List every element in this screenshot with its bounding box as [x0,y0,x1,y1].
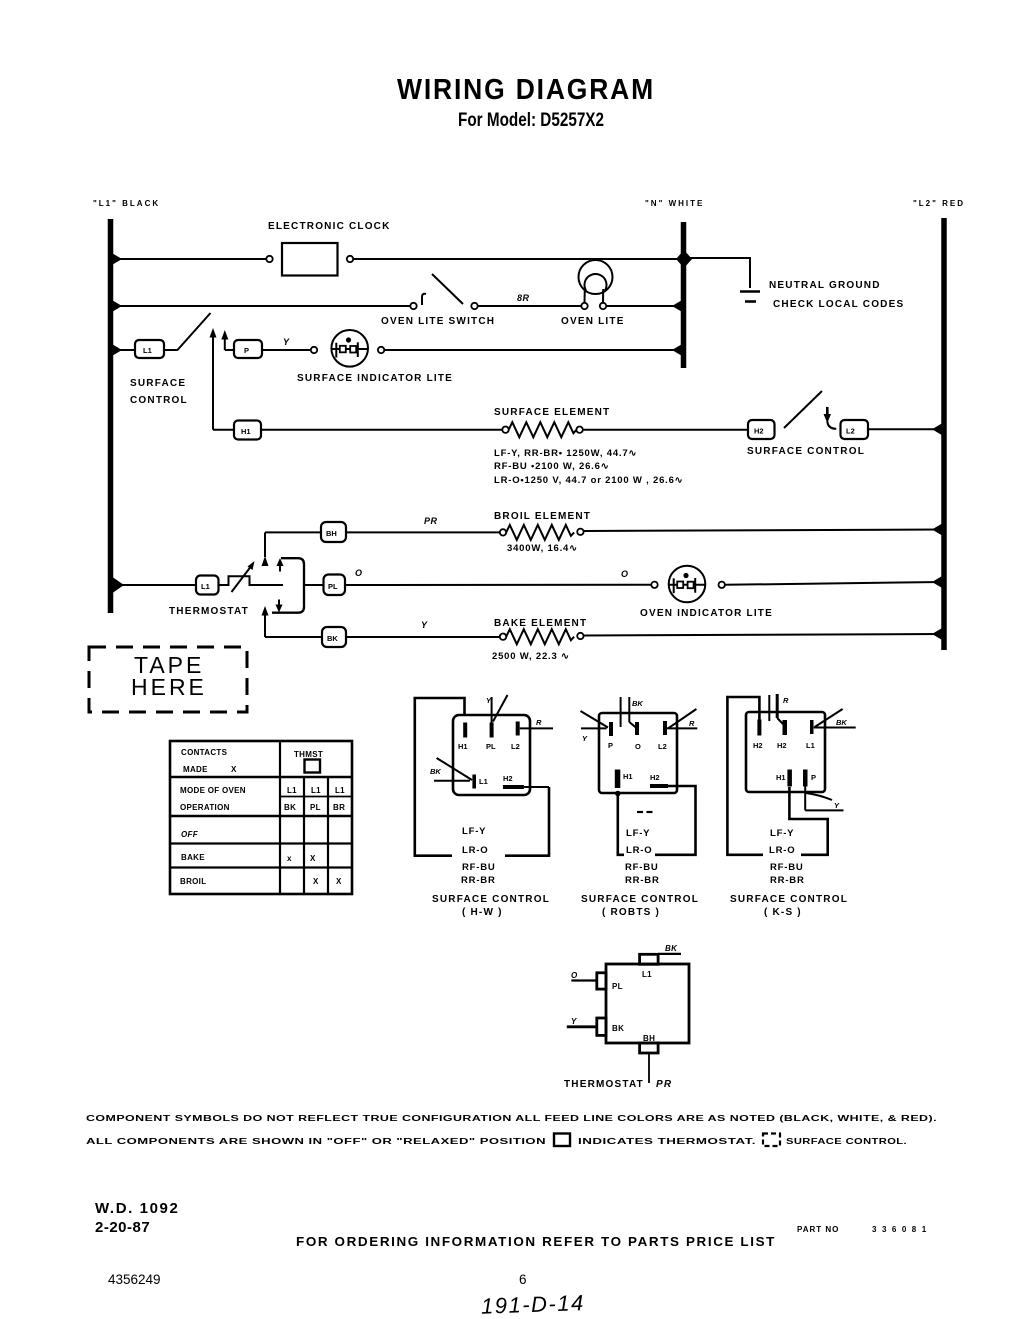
svg-text:Y: Y [421,620,428,630]
node L2 broil junction [932,523,943,536]
wire H1 to element [261,429,502,431]
thermostat checkbox [305,760,321,773]
svg-text:RR-BR: RR-BR [770,875,805,886]
terminal surface indicator left [311,347,317,353]
node N oven lite junction [672,300,683,313]
terminal oven lite switch left [410,303,416,309]
svg-text:X: X [310,854,316,863]
thermostat switch blade [232,561,255,592]
node L2 oven indicator junction [932,576,943,589]
wire BH to broil element [346,531,500,533]
wire clock row left [113,258,267,260]
terminal broil element right [577,529,583,535]
H-W terminal H2 [503,774,524,789]
terminal clock right [347,256,353,262]
svg-text:W.D. 1092: W.D. 1092 [95,1200,179,1217]
svg-text:( ROBTS ): ( ROBTS ) [602,907,660,918]
ROBTS terminal O [635,722,641,751]
svg-text:Y: Y [283,337,290,347]
svg-text:RF-BU: RF-BU [770,862,804,873]
svg-text:LR-O: LR-O [626,845,652,856]
switch contact PL box [324,575,346,596]
svg-text:LF-Y: LF-Y [626,828,650,839]
terminal clock left [266,256,272,262]
svg-text:"L1" BLACK: "L1" BLACK [93,199,160,208]
H-W wire left loop [415,698,465,856]
electronic clock box [282,243,338,276]
svg-text:SURFACE CONTROL.: SURFACE CONTROL. [786,1137,907,1146]
svg-text:H1: H1 [241,427,251,436]
ROBTS loop wires [618,794,624,855]
wire indicator to N [384,349,682,351]
svg-text:R: R [783,696,789,705]
switch contact BH box [321,522,346,542]
wire L1 to surface control switch [113,349,135,351]
wire L2 box to bus [868,428,942,430]
wire clock row right [353,258,683,260]
svg-text:X: X [313,877,319,886]
switch surface control blade [177,313,211,351]
svg-text:OVEN LITE SWITCH: OVEN LITE SWITCH [381,316,495,327]
svg-text:2500 W, 22.3 ∿: 2500 W, 22.3 ∿ [492,651,570,662]
svg-text:H2: H2 [503,774,513,783]
svg-text:CONTACTS: CONTACTS [181,748,228,757]
terminal oven indicator right [719,582,725,588]
svg-text:BH: BH [643,1034,655,1043]
svg-text:OVEN LITE: OVEN LITE [561,316,625,327]
svg-text:SURFACE CONTROL: SURFACE CONTROL [747,446,865,457]
svg-text:MADE: MADE [183,765,208,774]
wire bake feeder [265,636,322,638]
cam arrow up [277,558,284,572]
svg-text:2-20-87: 2-20-87 [95,1219,150,1236]
wire bake to L2 [584,634,942,636]
svg-text:L2: L2 [846,427,855,436]
wire oven indicator to L2 [725,582,942,585]
node L1 oven lite feeder junction [111,300,122,313]
svg-text:L1: L1 [201,582,210,591]
svg-text:4356249: 4356249 [108,1272,161,1287]
cam arrow down [276,600,283,613]
terminal oven lite lamp left [581,303,587,309]
thermostat left tab PL [597,973,623,991]
wire BK to bake element [346,636,500,638]
svg-text:PL: PL [612,982,623,991]
wire oven lite to N [606,305,682,307]
svg-text:SURFACE ELEMENT: SURFACE ELEMENT [494,407,610,418]
ROBTS BK wires top [621,697,637,728]
svg-text:L1: L1 [287,786,297,795]
svg-text:L1: L1 [806,741,815,750]
node L2 surface element junction [932,423,943,436]
K-S terminal H2b [777,720,787,750]
svg-text:BH: BH [326,529,337,538]
thermostat package box [606,964,689,1043]
resistor surface element [509,422,577,437]
actuator arrow bake [262,606,269,637]
ROBTS terminal L2 [658,721,667,751]
switch contact BK box [322,627,346,647]
svg-text:6: 6 [519,1272,527,1287]
svg-text:Y: Y [571,1017,577,1026]
svg-text:LR-O•1250 V, 44.7 or 2100: LR-O•1250 V, 44.7 or 2100 W , 26.6∿ [494,475,683,486]
svg-text:L1: L1 [143,346,152,355]
K-S terminal H2a [753,720,763,751]
thermostat L1 box [196,576,219,595]
svg-text:BK: BK [632,699,643,708]
H-W PL wire up [491,697,493,723]
ROBTS dashes [637,811,653,813]
K-S R wires top [769,694,783,724]
footer thermostat checkbox [554,1134,570,1147]
svg-text:8R: 8R [517,293,530,303]
svg-text:BK: BK [665,944,678,953]
wire broil feeder [265,531,321,533]
svg-text:OPERATION: OPERATION [180,803,230,812]
svg-text:P: P [811,773,816,782]
H-W terminal PL [486,723,496,752]
switch surface control right blade [784,391,822,428]
svg-text:CONTROL: CONTROL [130,395,188,406]
K-S Y wire [805,809,843,811]
ROBTS terminal P [608,722,613,750]
svg-text:OFF: OFF [181,830,199,839]
svg-text:PL: PL [328,582,338,591]
svg-text:RF-BU •2100 W, 26.6∿: RF-BU •2100 W, 26.6∿ [494,461,609,472]
svg-text:LF-Y: LF-Y [770,828,794,839]
actuator arrow broil [262,532,269,566]
svg-text:H2: H2 [777,741,787,750]
wire P to indicator [262,349,311,351]
ROBTS Y blade [581,711,609,743]
wire L1 box to blade [164,349,177,351]
svg-text:PR: PR [656,1079,672,1090]
svg-text:CHECK LOCAL CODES: CHECK LOCAL CODES [773,299,904,310]
terminal surface element left [502,427,508,433]
bus L1 [108,219,114,613]
node N clock junction [676,250,692,268]
svg-text:P: P [244,346,249,355]
wire broil to L2 [584,530,942,532]
terminal oven lite lamp right [600,303,606,309]
svg-text:"N" WHITE: "N" WHITE [645,199,704,208]
svg-text:L1: L1 [335,786,345,795]
tape here dashed box [89,647,247,712]
thermostat left tab BK [597,1018,624,1035]
wire actuator to H1 [213,429,234,431]
svg-text:H1: H1 [776,773,786,782]
thermostat BK wire top [658,944,681,954]
svg-text:BROIL: BROIL [180,877,206,886]
lamp oven lite [579,260,613,303]
resistor broil element [506,525,574,540]
K-S P wire down [804,786,806,810]
svg-text:O: O [355,568,363,578]
svg-text:O: O [571,971,578,980]
H-W terminal L2 [511,722,520,752]
svg-text:H1: H1 [458,742,468,751]
svg-text:SURFACE CONTROL: SURFACE CONTROL [581,894,699,905]
svg-text:"L2" RED: "L2" RED [913,199,965,208]
svg-text:BK: BK [430,767,441,776]
ROBTS terminal H1 [615,770,633,789]
thermostat cam bracket [272,558,304,613]
svg-text:H2: H2 [650,773,660,782]
svg-text:LF-Y: LF-Y [462,826,486,837]
svg-text:R: R [689,719,695,728]
contacts table frame [170,741,352,894]
switch oven lite actuator hook [422,294,426,305]
svg-text:L1: L1 [642,970,652,979]
wire L1 to thermostat [113,584,196,586]
svg-text:RR-BR: RR-BR [461,875,496,886]
svg-text:x: x [287,854,292,863]
svg-text:MODE OF OVEN: MODE OF OVEN [180,786,246,795]
switch contact H1 box [234,421,261,440]
svg-text:PART NO: PART NO [797,1225,839,1234]
svg-text:WIRING DIAGRAM: WIRING DIAGRAM [397,74,655,106]
svg-text:H2: H2 [753,741,763,750]
actuator arrow short [221,330,228,350]
terminal oven lite switch right [471,303,477,309]
K-S terminal L1 [806,720,815,750]
surface control H-W box [453,715,530,795]
actuator arrow surface control right [824,407,837,429]
terminal surface indicator right [378,347,384,353]
K-S Y curve [806,793,840,810]
svg-text:THMST: THMST [294,750,323,759]
actuator arrow long [210,328,217,430]
svg-text:SURFACE INDICATOR LITE: SURFACE INDICATOR LITE [297,373,453,384]
svg-text:3400W, 16.4∿: 3400W, 16.4∿ [507,543,578,554]
node L1 surface control feeder junction [111,344,122,357]
bus L2 [941,218,947,650]
svg-text:FOR ORDERING INFORMATION REFER: FOR ORDERING INFORMATION REFER TO PARTS … [296,1235,776,1249]
lamp surface indicator lite [331,330,368,367]
svg-text:INDICATES THERMOSTAT.: INDICATES THERMOSTAT. [578,1137,756,1146]
thermostat Y wire [567,1017,597,1027]
H-W Y blade [493,695,508,722]
wire element to H2 [583,429,748,431]
node N surface indicator junction [672,344,683,357]
H-W H2 exit wire [524,786,549,788]
terminal broil element left [500,529,506,535]
node L1 clock feeder junction [111,253,122,266]
svg-text:BAKE: BAKE [181,853,205,862]
svg-text:O: O [621,569,629,579]
svg-text:L2: L2 [658,742,667,751]
thermostat switch jog [219,576,284,585]
switch contact P box [234,340,262,358]
resistor bake element [506,629,574,644]
thermostat O wire [571,971,597,981]
thermostat bottom tab BH [640,1034,659,1053]
svg-text:X: X [231,765,237,774]
svg-text:( H-W ): ( H-W ) [462,907,503,918]
footer surface control checkbox dashed [763,1134,780,1147]
node L2 bake junction [932,628,943,641]
switch oven lite blade [432,274,463,304]
svg-text:PR: PR [424,516,438,526]
svg-text:LF-Y, RR-BR• 1250W, 44.7∿: LF-Y, RR-BR• 1250W, 44.7∿ [494,448,637,459]
ground [740,292,760,302]
svg-text:H2: H2 [754,427,764,436]
thermostat top tab L1 [640,954,659,979]
svg-text:PL: PL [486,742,496,751]
thermostat PR wire down [648,1053,650,1083]
svg-text:THERMOSTAT: THERMOSTAT [564,1079,644,1090]
svg-text:COMPONENT SYMBOLS DO NOT R: COMPONENT SYMBOLS DO NOT REFLECT TRUE CO… [86,1114,937,1123]
svg-text:RF-BU: RF-BU [462,862,496,873]
svg-text:NEUTRAL GROUND: NEUTRAL GROUND [769,280,881,291]
switch surface control L1 box [135,340,164,358]
svg-text:( K-S ): ( K-S ) [764,907,802,918]
svg-text:L1: L1 [311,786,321,795]
wire PL to oven indicator [345,584,651,586]
svg-text:PL: PL [310,803,321,812]
svg-text:L2: L2 [511,742,520,751]
wire actuator to P box [225,349,234,351]
ROBTS R blade [667,709,697,728]
svg-text:BK: BK [284,803,296,812]
svg-text:X: X [336,877,342,886]
svg-text:191-D-14: 191-D-14 [481,1290,586,1319]
wire bracket to PL [304,584,324,586]
surface control ROBTS box [599,713,677,793]
svg-text:BAKE ELEMENT: BAKE ELEMENT [494,618,587,629]
svg-text:BK: BK [836,718,847,727]
switch contact H2 box [748,420,775,439]
svg-text:BK: BK [327,634,338,643]
svg-text:SURFACE CONTROL: SURFACE CONTROL [432,894,550,905]
svg-text:THERMOSTAT: THERMOSTAT [169,606,249,617]
terminal surface element right [576,427,582,433]
svg-text:H1: H1 [623,772,633,781]
ROBTS terminal H2 [650,773,668,788]
svg-text:OVEN INDICATOR LITE: OVEN INDICATOR LITE [640,608,773,619]
node L1 thermostat feeder junction [111,576,124,594]
svg-text:ELECTRONIC CLOCK: ELECTRONIC CLOCK [268,221,391,232]
svg-text:HERE: HERE [131,674,207,700]
svg-text:SURFACE: SURFACE [130,378,186,389]
svg-text:R: R [536,718,542,727]
lamp oven indicator lite [669,566,706,603]
wire oven lite row left [113,305,410,307]
svg-text:ALL COMPONENTS ARE SHOWN I: ALL COMPONENTS ARE SHOWN IN "OFF" OR "RE… [86,1137,546,1146]
K-S left loop wire [727,697,763,855]
terminal bake element right [577,633,583,639]
svg-text:L1: L1 [479,777,488,786]
svg-text:O: O [635,742,641,751]
K-S terminal P [803,770,816,787]
switch contact L2 box [841,420,869,439]
svg-text:SURFACE CONTROL: SURFACE CONTROL [730,894,848,905]
surface control K-S box [746,712,825,792]
svg-text:336081: 336081 [872,1225,932,1234]
H-W BK blade [430,758,472,781]
svg-text:BK: BK [612,1024,624,1033]
K-S BK blade [814,709,856,728]
ROBTS junction dot [615,791,621,797]
terminal oven indicator left [651,582,657,588]
bus N [681,222,687,368]
svg-text:BROIL ELEMENT: BROIL ELEMENT [494,511,591,522]
svg-text:LR-O: LR-O [769,845,795,856]
terminal bake element left [500,634,506,640]
svg-text:P: P [608,741,613,750]
wire oven lite row middle [478,305,581,307]
K-S terminal H1 [776,770,792,787]
svg-text:BR: BR [333,803,345,812]
H-W terminal L1 [472,775,487,789]
H-W terminal H1 [458,723,468,752]
svg-text:For Model: D5257X2: For Model: D5257X2 [458,109,604,131]
svg-text:LR-O: LR-O [462,845,488,856]
wire neutral ground stub [690,258,750,288]
H-W R wire [520,727,553,729]
svg-text:RF-BU: RF-BU [625,862,659,873]
svg-text:RR-BR: RR-BR [625,875,660,886]
